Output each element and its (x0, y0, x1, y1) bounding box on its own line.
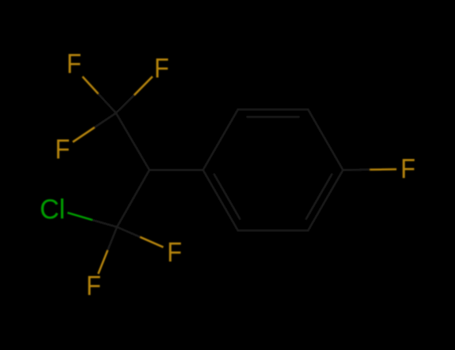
bond CF3 carbon to F3 (carbon half) (94, 113, 116, 128)
bond CClF2 carbon to F4 (carbon half) (117, 227, 140, 237)
ring double bond inner line (lower left) (214, 174, 241, 220)
bond ring para carbon to F6 (fluorine half) (370, 168, 397, 170)
svg-text:F: F (67, 48, 82, 79)
bond CF3 carbon to F3 (fluorine half) (73, 128, 95, 143)
bond CF3 carbon to F2 (fluorine half) (134, 77, 152, 96)
bond CF3 carbon to F1 (carbon half) (98, 94, 116, 113)
svg-text:Cl: Cl (40, 193, 65, 224)
bond CClF2 carbon to F5 (carbon half) (108, 227, 117, 250)
ring double bond inner line (lower right) (306, 174, 333, 220)
svg-text:F: F (55, 134, 70, 165)
svg-text:F: F (154, 52, 169, 83)
bond CClF2 carbon to F4 (fluorine half) (140, 237, 163, 247)
bond CClF2 carbon to Cl (chlorine half) (68, 213, 93, 220)
bond ring para carbon to F6 (carbon half) (343, 169, 370, 171)
wire: bond CH to CF3 carbon (116, 113, 149, 170)
svg-text:F: F (401, 153, 416, 184)
bond CF3 carbon to F1 (fluorine half) (83, 77, 99, 94)
wire: bond CH to ring ipso carbon (149, 169, 203, 171)
benzene ring C4H4 (1,4-disubstituted) (203, 109, 343, 230)
bond CClF2 carbon to Cl (carbon half) (92, 220, 117, 227)
bond CClF2 carbon to F5 (fluorine half) (98, 250, 107, 274)
svg-text:F: F (86, 270, 101, 301)
ring double bond inner line (top) (246, 116, 299, 118)
wire: bond CH to CClF2 carbon (117, 170, 149, 227)
svg-text:F: F (167, 237, 182, 268)
bond CF3 carbon to F2 (carbon half) (116, 95, 134, 113)
